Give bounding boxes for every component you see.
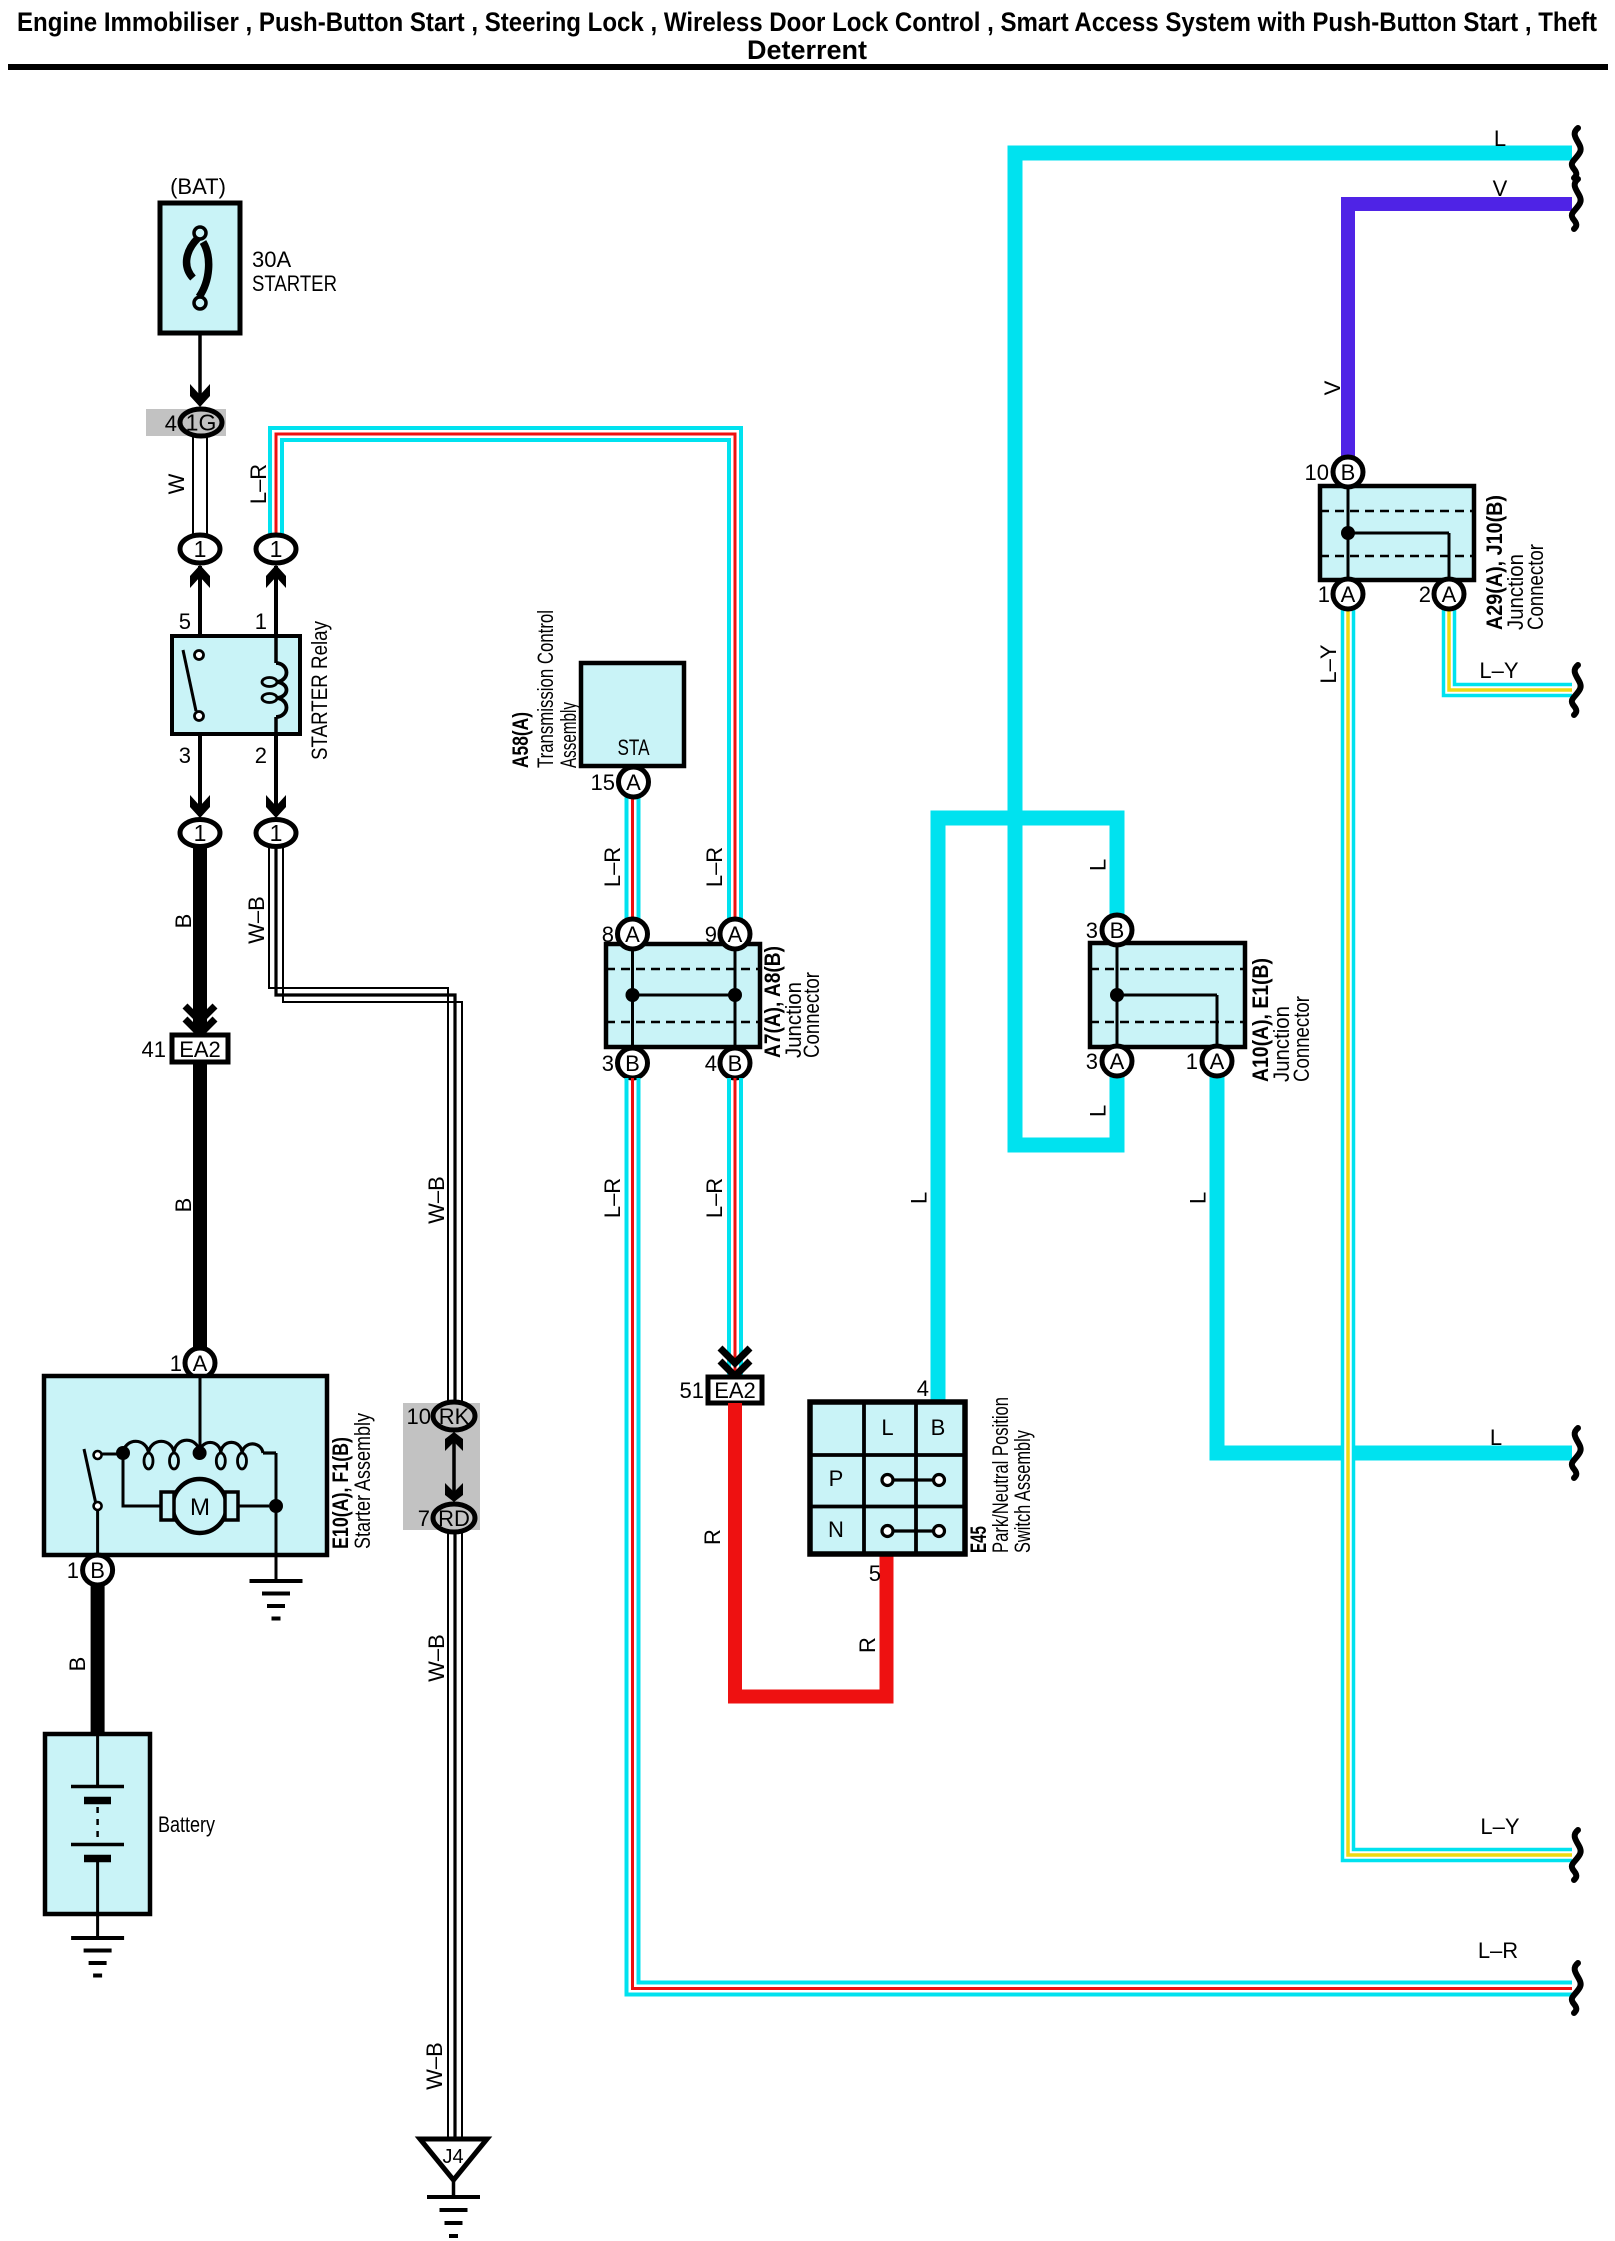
svg-text:1: 1	[270, 820, 283, 846]
squiggle L-R exit	[1572, 1963, 1581, 2013]
svg-text:8: 8	[602, 922, 614, 947]
double arrow into EA2	[185, 1006, 215, 1021]
svg-text:3: 3	[179, 743, 191, 768]
svg-text:A: A	[728, 922, 743, 947]
svg-text:STA: STA	[618, 735, 650, 760]
svg-text:30A: 30A	[252, 247, 291, 272]
svg-text:3: 3	[602, 1051, 614, 1076]
svg-text:W–B: W–B	[422, 2042, 447, 2090]
wire V junction A29 pinB to right edge	[1348, 204, 1572, 457]
pin circle A starter	[185, 1348, 215, 1378]
svg-text:1: 1	[194, 536, 207, 562]
svg-text:W–B: W–B	[244, 896, 269, 944]
svg-text:L: L	[1490, 1425, 1502, 1450]
connector 1 below pin2	[256, 820, 296, 847]
connector 10 RK / 7 RD	[403, 1403, 480, 1530]
svg-text:STARTER Relay: STARTER Relay	[307, 621, 332, 760]
svg-text:A58(A): A58(A)	[508, 712, 533, 768]
arrow into 1G	[190, 384, 210, 407]
svg-text:7: 7	[418, 1506, 430, 1531]
svg-text:RD: RD	[438, 1506, 470, 1531]
svg-text:Connector: Connector	[1289, 996, 1314, 1082]
svg-text:L: L	[1086, 1105, 1111, 1117]
svg-text:A: A	[1442, 582, 1457, 607]
pin circle B junction right bottom	[720, 1048, 750, 1078]
wire L E45 pin4 to junction A10 pin B	[938, 818, 1117, 1402]
svg-text:51: 51	[680, 1378, 704, 1403]
ground J4	[427, 2195, 480, 2199]
pin circle A STA	[619, 767, 649, 797]
svg-text:Transmission Control: Transmission Control	[533, 610, 558, 768]
connector 1 (fuse side)	[180, 535, 220, 563]
svg-text:(BAT): (BAT)	[170, 174, 226, 199]
svg-text:2: 2	[1419, 582, 1431, 607]
wire L-R junction 4B to EA2	[727, 1078, 731, 1375]
arrow up into connector 1	[190, 565, 210, 588]
svg-text:A: A	[626, 770, 641, 795]
svg-text:A: A	[1341, 582, 1356, 607]
svg-text:EA2: EA2	[179, 1037, 221, 1062]
svg-text:L–Y: L–Y	[1480, 1814, 1519, 1839]
connector 4 1G	[146, 409, 226, 436]
svg-text:A: A	[625, 922, 640, 947]
pin circle A A29 right	[1434, 579, 1464, 609]
squiggle L mid	[1572, 1428, 1581, 1478]
connector 1 (relay coil side)	[256, 535, 296, 563]
battery	[45, 1734, 150, 1914]
pin circle A junction left top	[618, 919, 648, 949]
wire L-R relay branch	[270, 428, 741, 919]
svg-text:W: W	[164, 473, 189, 494]
svg-text:L–R: L–R	[702, 847, 727, 887]
arrow down into connector right	[266, 795, 286, 818]
svg-text:1: 1	[270, 536, 283, 562]
svg-text:L–R: L–R	[600, 1178, 625, 1218]
svg-text:4: 4	[165, 411, 177, 436]
relay STARTER Relay	[172, 636, 300, 734]
svg-text:B: B	[625, 1051, 640, 1076]
pin circle B junction left bottom	[618, 1048, 648, 1078]
wire R EA2 to E45 pin5	[735, 1403, 887, 1697]
svg-text:Battery: Battery	[158, 1812, 215, 1837]
svg-text:B: B	[171, 914, 196, 929]
pin circle B A10	[1102, 915, 1132, 945]
squiggle L-Y bottom	[1572, 1830, 1581, 1880]
squiggle L top	[1572, 128, 1581, 178]
svg-text:L–R: L–R	[246, 464, 271, 504]
svg-text:W–B: W–B	[424, 1634, 449, 1682]
wire W-B relay pin2 to RK	[269, 846, 448, 1404]
double arrow into EA2 51	[720, 1348, 750, 1363]
junction connector A29(A) J10(B)	[1320, 486, 1474, 580]
wire fuse to connector 1G	[198, 333, 202, 403]
wire L-R junction 3B to right edge	[627, 1078, 1573, 1995]
svg-text:2: 2	[255, 743, 267, 768]
svg-text:1: 1	[1186, 1049, 1198, 1074]
svg-text:Deterrent: Deterrent	[747, 35, 867, 65]
wire to relay pin 5	[198, 566, 202, 636]
wire to relay pin 1	[274, 566, 278, 636]
svg-text:B: B	[1341, 460, 1356, 485]
svg-text:Starter Assembly: Starter Assembly	[350, 1413, 375, 1549]
wire L-R STA to junction	[625, 797, 629, 919]
svg-text:4: 4	[917, 1376, 929, 1401]
switch E45 Park/Neutral Position	[810, 1402, 965, 1554]
svg-text:RK: RK	[439, 1404, 470, 1429]
svg-text:M: M	[190, 1494, 210, 1521]
pin circle A A10 right	[1202, 1046, 1232, 1076]
junction connector A10(A) E1(B)	[1090, 943, 1245, 1047]
svg-text:L–R: L–R	[600, 847, 625, 887]
svg-text:R: R	[855, 1637, 880, 1653]
svg-text:5: 5	[869, 1561, 881, 1586]
svg-text:B: B	[90, 1558, 105, 1583]
svg-text:4: 4	[705, 1051, 717, 1076]
svg-text:R: R	[700, 1529, 725, 1545]
svg-text:Assembly: Assembly	[556, 702, 581, 768]
ECU A58(A) Transmission Control	[581, 663, 684, 766]
svg-text:3: 3	[1086, 1049, 1098, 1074]
junction connector A7(A) A8(B)	[606, 944, 760, 1047]
ground point 51 EA2	[708, 1377, 762, 1403]
pin circle A A10 left	[1102, 1046, 1132, 1076]
svg-text:B: B	[728, 1051, 743, 1076]
wire B to EA2	[193, 846, 207, 1032]
ground point 41 EA2	[172, 1035, 228, 1062]
svg-text:Connector: Connector	[799, 972, 824, 1058]
wire L-Y junction A29 1A to right edge bottom	[1348, 608, 1572, 1855]
svg-text:1G: 1G	[186, 410, 217, 436]
svg-text:N: N	[828, 1517, 844, 1542]
ground point J4	[420, 2139, 487, 2180]
svg-text:Switch Assembly: Switch Assembly	[1010, 1430, 1035, 1553]
svg-text:STARTER: STARTER	[252, 271, 337, 296]
svg-text:A: A	[193, 1351, 208, 1376]
ground starter assembly	[250, 1579, 303, 1583]
svg-text:Connector: Connector	[1523, 544, 1548, 630]
svg-text:B: B	[171, 1198, 196, 1213]
starter assembly E10(A) F1(B)	[44, 1376, 327, 1555]
svg-text:10: 10	[407, 1404, 431, 1429]
svg-text:L–Y: L–Y	[1316, 644, 1341, 683]
svg-text:J4: J4	[442, 2146, 463, 2168]
svg-text:L: L	[1186, 1192, 1211, 1204]
pin circle B starter	[83, 1555, 113, 1585]
fuse 30A STARTER	[160, 203, 240, 333]
squiggle V	[1572, 179, 1581, 229]
wire W	[192, 436, 194, 536]
svg-text:1: 1	[170, 1351, 182, 1376]
svg-text:L–Y: L–Y	[1479, 658, 1518, 683]
svg-text:10: 10	[1305, 460, 1329, 485]
svg-text:P: P	[829, 1466, 844, 1491]
ground battery	[71, 1936, 124, 1940]
pin circle A A29 left	[1333, 579, 1363, 609]
svg-text:L–R: L–R	[702, 1178, 727, 1218]
svg-text:L: L	[1086, 859, 1111, 871]
svg-text:1: 1	[194, 820, 207, 846]
svg-text:41: 41	[142, 1037, 166, 1062]
svg-text:B: B	[1110, 918, 1125, 943]
svg-text:9: 9	[705, 922, 717, 947]
svg-text:L–R: L–R	[1478, 1938, 1518, 1963]
arrow down into connector	[190, 795, 210, 818]
svg-text:B: B	[65, 1657, 90, 1672]
pin circle A junction right top	[720, 919, 750, 949]
squiggle L-Y right	[1572, 665, 1581, 715]
svg-text:A: A	[1210, 1049, 1225, 1074]
wire L junction A10 3A to right edge top	[1015, 153, 1572, 1145]
wire L-Y junction A29 2A to right edge	[1449, 608, 1572, 690]
svg-text:5: 5	[179, 609, 191, 634]
pin circle B A29	[1333, 457, 1363, 487]
svg-text:V: V	[1320, 380, 1345, 395]
svg-text:1: 1	[255, 609, 267, 634]
svg-text:V: V	[1493, 176, 1508, 201]
svg-text:Engine Immobiliser , Push-Butt: Engine Immobiliser , Push-Button Start ,…	[17, 7, 1597, 37]
wire L junction A10 1A to right edge	[1217, 1076, 1572, 1453]
arrow up into connector 1 right	[266, 565, 286, 588]
svg-text:3: 3	[1086, 918, 1098, 943]
wire B starter to battery	[91, 1585, 105, 1734]
svg-text:EA2: EA2	[714, 1378, 756, 1403]
wire relay pin3 down	[198, 734, 202, 816]
svg-text:W–B: W–B	[424, 1176, 449, 1224]
svg-text:L: L	[881, 1415, 893, 1440]
wire relay pin2 down	[274, 734, 278, 816]
svg-text:L: L	[1494, 126, 1506, 151]
svg-text:15: 15	[591, 770, 615, 795]
svg-text:A: A	[1110, 1049, 1125, 1074]
svg-text:B: B	[931, 1415, 946, 1440]
wire W-B RD to J4	[447, 1532, 449, 2139]
svg-text:1: 1	[67, 1558, 79, 1583]
connector 1 below pin3	[180, 820, 220, 847]
svg-text:L: L	[907, 1192, 932, 1204]
wire B EA2 to starter	[193, 1062, 207, 1349]
svg-text:1: 1	[1318, 582, 1330, 607]
